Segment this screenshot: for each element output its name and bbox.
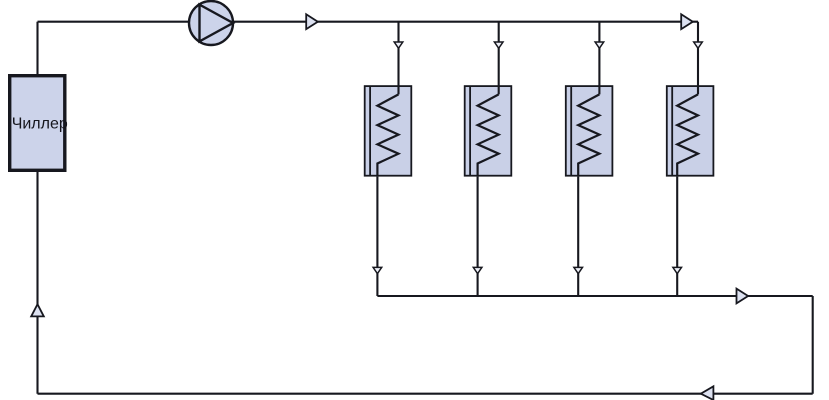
heat exchanger HX2 body <box>465 86 512 176</box>
wire: left return riser to chiller <box>36 172 38 394</box>
flow arrow: HX4 return <box>673 267 682 273</box>
wire: branch drop to HX1 coil <box>397 22 399 95</box>
flow arrow: HX3 return <box>574 267 583 273</box>
wire: branch drop to HX3 coil <box>598 22 600 95</box>
coil of HX3 <box>578 94 599 176</box>
wire: top supply manifold (chiller to pump) <box>38 21 190 23</box>
pump P1 <box>189 1 233 45</box>
coil of HX1 <box>377 94 398 176</box>
flow arrow: left return riser (pointing up) <box>31 304 44 316</box>
flow arrow: bottom return (pointing left) <box>701 386 714 400</box>
flow arrow: HX2 return <box>473 267 482 273</box>
flow arrow: HX4 branch inlet <box>694 42 703 48</box>
wire: chiller supply riser <box>36 22 38 75</box>
heat exchanger HX1 body <box>365 86 412 176</box>
wire: lower return manifold <box>377 295 812 297</box>
flow arrow: supply before top-right corner <box>681 14 693 29</box>
flow arrow: HX2 branch inlet <box>494 42 503 48</box>
wire: branch drop to HX4 coil (manifold corner) <box>697 22 699 95</box>
wire: top supply manifold (pump to right corner) <box>233 21 699 23</box>
wire: bottom return run <box>38 393 813 395</box>
heat exchanger HX4 body <box>667 86 714 176</box>
flow arrow: supply after pump <box>306 14 318 29</box>
svg-text:Чиллер: Чиллер <box>12 116 68 133</box>
flow arrow: HX3 branch inlet <box>595 42 604 48</box>
flow arrow: return manifold <box>737 289 749 304</box>
chiller unit <box>10 76 65 171</box>
flow arrow: HX1 branch inlet <box>394 42 403 48</box>
coil of HX4 <box>677 94 698 176</box>
flow arrow: HX1 return <box>373 267 382 273</box>
wire: HX2 return drop <box>477 177 479 296</box>
coil of HX2 <box>478 94 499 176</box>
wire: right return drop <box>812 296 814 394</box>
wire: HX3 return drop <box>577 177 579 296</box>
wire: branch drop to HX2 coil <box>498 22 500 95</box>
heat exchanger HX3 body <box>566 86 613 176</box>
wire: HX1 return drop <box>376 177 378 296</box>
wire: HX4 return drop <box>676 177 678 296</box>
